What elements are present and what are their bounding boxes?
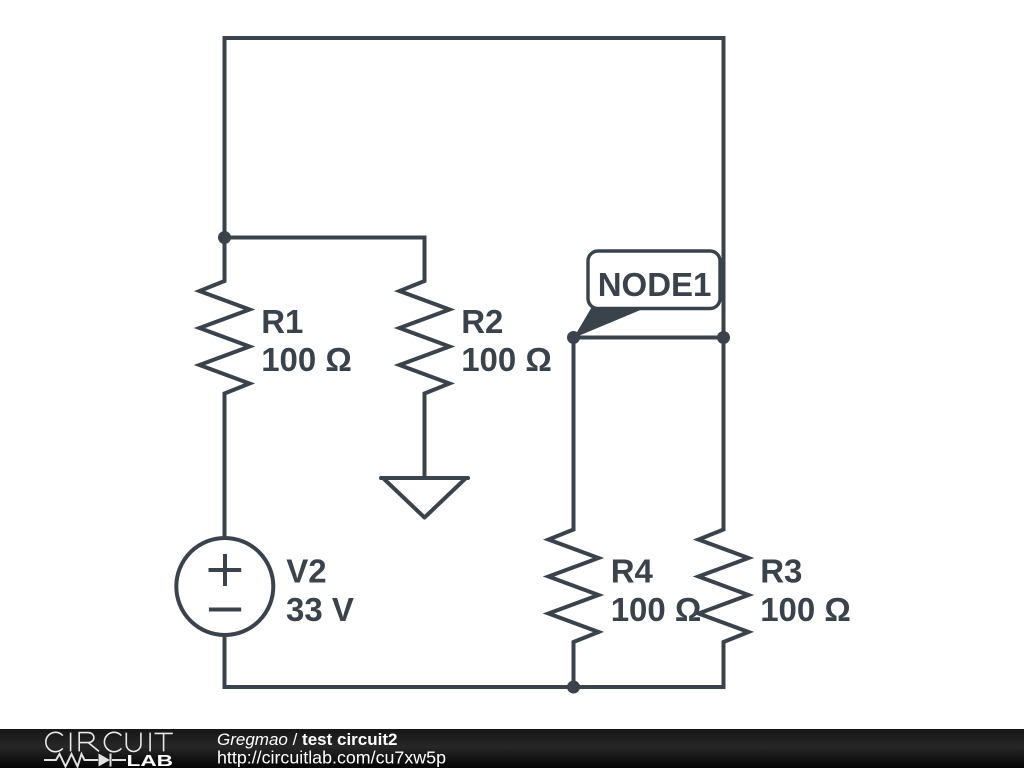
svg-text:V2: V2 — [286, 553, 326, 590]
svg-text:Gregmao / test circuit2: Gregmao / test circuit2 — [217, 730, 397, 749]
svg-text:100 Ω: 100 Ω — [611, 591, 702, 628]
svg-text:LAB: LAB — [127, 753, 174, 768]
svg-text:100 Ω: 100 Ω — [461, 341, 552, 378]
svg-text:100 Ω: 100 Ω — [261, 341, 352, 378]
svg-text:33 V: 33 V — [286, 591, 354, 628]
svg-text:R1: R1 — [261, 303, 303, 340]
svg-text:R4: R4 — [611, 553, 654, 590]
svg-text:100 Ω: 100 Ω — [760, 591, 851, 628]
svg-text:R2: R2 — [461, 303, 503, 340]
svg-text:http://circuitlab.com/cu7xw5p: http://circuitlab.com/cu7xw5p — [217, 748, 446, 768]
svg-text:NODE1: NODE1 — [598, 266, 712, 303]
svg-text:R3: R3 — [760, 553, 802, 590]
